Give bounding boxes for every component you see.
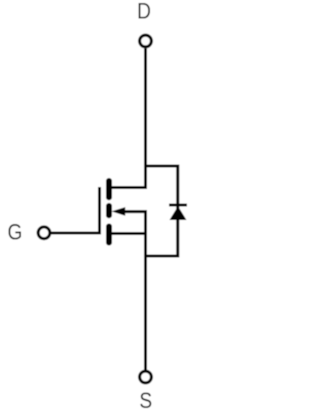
wire gate: G terminal to gate electrode	[51, 232, 101, 235]
terminal S (open circle)	[140, 371, 152, 383]
wire drain trunk: D terminal down, corner left to channel top bar	[109, 48, 146, 187]
diode D1 anode triangle	[170, 206, 187, 220]
transistor Q1 body arrow (points to channel)	[112, 207, 126, 216]
diode D1 cathode bar	[169, 204, 187, 207]
node D label	[137, 0, 151, 24]
terminal G (open circle)	[38, 227, 50, 239]
wire source: bottom bar to body vertical	[109, 232, 147, 235]
node G label	[8, 220, 23, 245]
transistor Q1 channel top bar (drain)	[106, 181, 112, 197]
svg-text:D: D	[137, 0, 151, 24]
gate electrode vertical line	[98, 187, 101, 233]
wire top branch to body diode	[144, 165, 178, 168]
svg-text:S: S	[139, 388, 152, 413]
transistor Q1 channel middle bar (body)	[106, 206, 112, 215]
terminal D (open circle)	[140, 35, 152, 47]
transistor Q1 channel bottom bar (source)	[106, 227, 112, 243]
svg-text:G: G	[8, 220, 23, 245]
wire bottom branch from source node to diode anode	[144, 255, 178, 258]
node S label	[139, 388, 152, 413]
wire body connection: arrow to trunk, down to S terminal	[124, 212, 146, 370]
wire body-diode branch vertical	[176, 165, 179, 258]
